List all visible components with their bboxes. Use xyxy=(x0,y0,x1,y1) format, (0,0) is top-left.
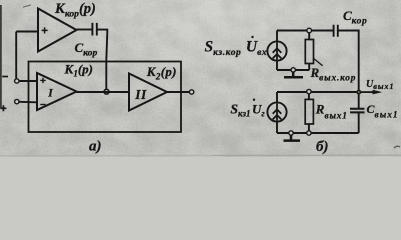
speck artifact top-left xyxy=(23,5,31,7)
wire K1 output to K2 input xyxy=(77,91,130,93)
wire Kkor output to capacitor xyxy=(77,29,93,31)
wire S1 top to rail xyxy=(276,31,278,42)
resistor Rvyh.kor xyxy=(305,40,313,64)
wire S1 bottom xyxy=(276,60,278,70)
bottom rail of top subcircuit xyxy=(277,69,309,71)
ground node circle top subcircuit xyxy=(291,68,295,72)
op-amp K2 triangle xyxy=(129,74,167,111)
terminal input 2 xyxy=(15,99,19,103)
output node dot xyxy=(356,90,361,95)
wire cap Cvyh1 top lead xyxy=(358,94,360,108)
wire cap Cvyh1 bottom lead xyxy=(358,112,360,133)
bottom rail of bottom subcircuit xyxy=(277,132,359,134)
node circle at Rvyh1 top xyxy=(307,89,311,93)
plus sign inside K1 xyxy=(40,78,45,83)
node open circle at Rkor top xyxy=(307,28,312,33)
wire node circle to resistor Rkor xyxy=(308,33,310,40)
wire resistor Rkor bottom to rail xyxy=(308,64,310,71)
minus label external xyxy=(2,76,8,78)
dot above Ug xyxy=(253,99,255,101)
node A junction circle xyxy=(104,89,109,94)
plus sign inside Kkor xyxy=(42,27,48,33)
ground top subcircuit xyxy=(284,72,303,77)
wire terminal2 to K1 minus input xyxy=(19,101,37,104)
svg-text:б): б) xyxy=(316,139,328,155)
wire S2 top to rail xyxy=(276,92,278,103)
wire S2 bottom xyxy=(276,121,278,133)
paper background xyxy=(0,0,401,157)
svg-text:а): а) xyxy=(89,139,102,155)
svg-text:I: I xyxy=(47,88,53,100)
wire resistor Rvyh1 bottom to rail xyxy=(308,124,310,133)
op-amp K1 triangle xyxy=(37,73,77,110)
wire capacitor to node A xyxy=(97,30,108,92)
op-amp Kkor triangle xyxy=(38,9,77,52)
terminal output xyxy=(189,90,193,94)
smudge line bottom right xyxy=(0,154,401,157)
svg-text:К2(р): К2(р) xyxy=(146,64,177,81)
svg-text:К1(р): К1(р) xyxy=(64,61,94,78)
leader line to Rvyh.kor label xyxy=(313,58,322,66)
scan edge artifact left xyxy=(0,5,2,108)
wire terminal1 to K1 plus input xyxy=(19,80,37,82)
top rail left segment xyxy=(277,30,333,32)
capacitor Cvyh1 xyxy=(350,109,365,113)
capacitor Ckor (equiv circuit) xyxy=(334,25,338,37)
wire input to Kkor from feedback node xyxy=(16,32,38,80)
ground bottom subcircuit xyxy=(284,135,301,141)
output arrow Uvyh1 xyxy=(361,91,376,93)
minus sign inside K1 xyxy=(40,104,45,106)
svg-text:II: II xyxy=(134,87,147,102)
plus label external xyxy=(0,105,6,111)
wire node to resistor Rvyh1 xyxy=(308,94,310,99)
enclosure box xyxy=(29,62,182,133)
dot above Uvx xyxy=(251,36,253,38)
stain bottom right corner xyxy=(394,146,400,148)
node circle at ground bottom xyxy=(289,131,293,135)
current source S1 circle xyxy=(267,41,286,60)
terminal input 1 xyxy=(15,79,19,83)
capacitor Ckor (block diagram) xyxy=(92,23,96,36)
current source S2 circle xyxy=(267,102,286,121)
top rail right segment and down xyxy=(338,31,359,93)
top rail of bottom subcircuit xyxy=(277,91,359,93)
wire K2 output to terminal xyxy=(167,91,189,93)
resistor Rvyh1 xyxy=(305,99,313,124)
node circle at Rvyh1 bottom xyxy=(307,131,311,135)
current source S1 arrow xyxy=(273,43,282,60)
current source S2 arrow xyxy=(273,104,282,121)
